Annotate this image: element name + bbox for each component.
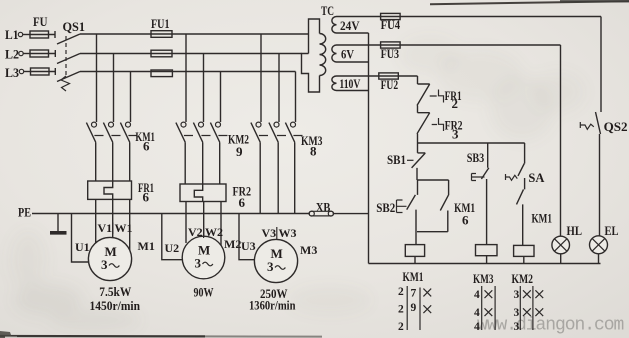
svg-text:W1: W1 — [115, 221, 133, 235]
svg-text:2: 2 — [398, 286, 404, 298]
wire control bottom rail — [369, 263, 601, 265]
svg-text:8: 8 — [310, 144, 317, 159]
svg-text:W3: W3 — [279, 226, 297, 240]
wire U3 — [239, 214, 255, 260]
node L3 — [5, 65, 24, 80]
svg-text:2: 2 — [398, 304, 404, 316]
wire L3 bus — [80, 71, 296, 73]
button SB2 (NO start) — [376, 180, 417, 245]
svg-text:TC: TC — [321, 3, 334, 18]
node L2 — [5, 47, 23, 62]
svg-text:6: 6 — [462, 213, 469, 228]
svg-text:90W: 90W — [194, 285, 214, 300]
svg-text:9: 9 — [236, 144, 243, 159]
svg-text:24V: 24V — [340, 18, 360, 33]
svg-text:6: 6 — [143, 139, 150, 154]
wire branch2 drops to KM2 — [186, 34, 221, 122]
svg-text:W2: W2 — [205, 225, 223, 239]
svg-text:EL: EL — [605, 223, 619, 238]
scan artifact top edge line — [430, 1, 629, 4]
svg-text:M3: M3 — [300, 243, 317, 257]
wire branch1 drops to KM1 — [97, 34, 131, 122]
wire U1 — [72, 214, 90, 263]
fuse FU3 — [381, 42, 561, 61]
svg-text:www.diangon.com: www.diangon.com — [477, 316, 624, 336]
winding 110V — [332, 76, 398, 91]
terminal XB — [309, 200, 369, 217]
svg-text:4: 4 — [474, 307, 480, 319]
ground — [50, 214, 67, 233]
wire secondary common — [368, 33, 370, 264]
wire branch3 drops to KM3 — [261, 34, 296, 122]
button SB3 (NO) — [467, 143, 489, 245]
wire FR2 outputs to motor M2 — [186, 202, 221, 252]
contact table KM3 — [474, 286, 495, 333]
svg-text:L3: L3 — [5, 65, 19, 80]
svg-text:3: 3 — [514, 321, 520, 333]
svg-text:KM1: KM1 — [532, 211, 553, 226]
svg-text:SB1: SB1 — [387, 152, 406, 167]
fuse FU2 — [379, 73, 418, 92]
svg-text:3: 3 — [101, 257, 108, 272]
wire control node row — [418, 142, 525, 144]
svg-text:U1: U1 — [75, 240, 90, 254]
switch QS2 — [580, 17, 627, 236]
wire FR1 outputs to motor M1 — [96, 199, 130, 253]
svg-text:KM2: KM2 — [512, 271, 534, 286]
fuse FU1 (three bus fuses) — [151, 16, 172, 77]
wire L1 bus — [80, 33, 309, 35]
contact FR1 (NC, thermal) — [417, 84, 462, 113]
svg-text:U3: U3 — [241, 239, 256, 253]
contactor KM3 main contacts — [251, 122, 323, 213]
svg-text:3: 3 — [514, 307, 520, 319]
fuse FU4 — [381, 13, 601, 32]
svg-text:6: 6 — [143, 190, 150, 205]
svg-text:3: 3 — [514, 289, 520, 301]
svg-text:4: 4 — [474, 289, 480, 301]
motor M2 — [165, 225, 242, 300]
svg-text:6: 6 — [239, 195, 246, 210]
svg-text:FU3: FU3 — [381, 46, 400, 61]
svg-text:FU: FU — [33, 14, 48, 29]
coil KM1 — [403, 245, 425, 284]
transformer TC — [302, 3, 335, 92]
contact KM1 (in KM2 branch) — [517, 189, 553, 245]
winding 6V — [332, 45, 400, 62]
svg-text:QS1: QS1 — [63, 19, 86, 34]
svg-text:FU2: FU2 — [381, 77, 399, 92]
motor M3 — [241, 226, 317, 313]
fuse FU (three-phase input fuses) — [23, 14, 56, 75]
scan artifact bottom edge line — [0, 335, 205, 338]
wire L2 bus — [80, 53, 302, 55]
lamp HL — [552, 45, 582, 264]
contact table KM2 — [514, 286, 544, 333]
svg-text:3: 3 — [195, 256, 202, 271]
motor M1 — [75, 221, 155, 313]
contactor KM1 main contacts — [86, 122, 154, 181]
svg-text:KM3: KM3 — [473, 271, 494, 286]
svg-text:1450r/min: 1450r/min — [90, 298, 141, 313]
thermal relay FR2 heater — [180, 184, 251, 211]
svg-text:2: 2 — [452, 96, 459, 111]
scan bleed-through smudges — [10, 37, 584, 331]
wire self-hold branch top — [418, 179, 449, 181]
svg-text:L1: L1 — [5, 27, 19, 42]
lamp EL — [590, 223, 619, 264]
svg-text:HL: HL — [567, 223, 583, 238]
svg-text:KM1: KM1 — [403, 269, 424, 284]
svg-text:SB2: SB2 — [376, 200, 395, 215]
coil KM2 — [512, 245, 535, 286]
thermal relay FR1 heater — [88, 180, 154, 205]
svg-text:2: 2 — [398, 321, 404, 333]
svg-text:4: 4 — [474, 321, 480, 333]
switch QS1 (3-pole knife switch) — [55, 19, 85, 91]
wire U2 — [162, 214, 183, 260]
svg-text:V2: V2 — [188, 225, 203, 239]
svg-text:FU4: FU4 — [381, 17, 401, 32]
svg-text:M1: M1 — [138, 239, 155, 253]
svg-text:V1: V1 — [98, 221, 113, 235]
contactor KM2 main contacts — [176, 122, 249, 184]
svg-text:3: 3 — [452, 127, 459, 142]
svg-text:V3: V3 — [262, 226, 277, 240]
svg-text:110V: 110V — [339, 76, 360, 91]
svg-text:U2: U2 — [165, 241, 180, 255]
coil KM3 — [473, 245, 497, 286]
svg-text:7.5kW: 7.5kW — [99, 284, 131, 299]
wire PE rail — [32, 213, 309, 215]
svg-text:FU1: FU1 — [151, 16, 170, 31]
winding 24V — [332, 17, 400, 34]
svg-text:SB3: SB3 — [467, 150, 485, 165]
contact FR2 (NC, thermal) — [417, 113, 463, 143]
svg-text:1360r/min: 1360r/min — [249, 298, 296, 313]
button SB1 (NC stop) — [387, 143, 425, 180]
switch SA — [506, 143, 545, 189]
svg-text:6V: 6V — [341, 47, 354, 62]
svg-text:QS2: QS2 — [604, 119, 628, 134]
contact table KM1 — [398, 286, 431, 333]
svg-text:3: 3 — [267, 259, 274, 274]
svg-text:PE: PE — [18, 205, 31, 220]
svg-text:7: 7 — [411, 288, 417, 300]
svg-text:L2: L2 — [5, 47, 19, 62]
svg-text:9: 9 — [411, 302, 417, 314]
svg-text:SA: SA — [528, 170, 545, 185]
node L1 — [5, 27, 23, 42]
contact KM1 self-hold — [417, 180, 475, 232]
